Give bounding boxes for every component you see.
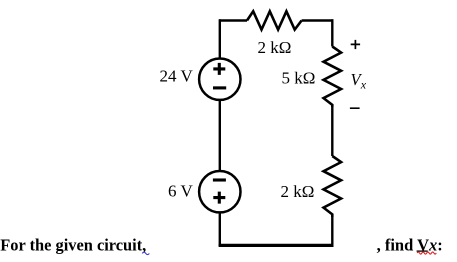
wire left vertical top segment — [219, 19, 221, 59]
plus sign inside 24 V source — [213, 63, 225, 75]
svg-text:2 kΩ: 2 kΩ — [258, 38, 292, 57]
wire top-right horizontal segment — [302, 19, 334, 21]
resistor 5 kOhm — [324, 47, 342, 108]
svg-text:2 kΩ: 2 kΩ — [281, 182, 315, 201]
plus polarity mark of Vx — [351, 40, 360, 49]
wire top-left horizontal segment — [219, 19, 247, 21]
label 6 V — [168, 181, 193, 200]
underline under V of Vx — [417, 250, 428, 252]
svg-text:x: x — [360, 78, 367, 92]
wire right vertical top segment — [331, 19, 333, 46]
caption left: For the given circuit, — [0, 235, 146, 254]
minus polarity mark of Vx — [350, 107, 360, 109]
svg-text:24 V: 24 V — [160, 66, 194, 85]
label 2 kOhm (bottom) — [281, 182, 315, 201]
red spell-check squiggle under Vx — [417, 252, 436, 254]
label Vx — [351, 70, 367, 92]
minus sign inside 6 V source — [213, 178, 226, 181]
wire left vertical bottom segment — [219, 213, 221, 247]
svg-text:6 V: 6 V — [168, 181, 193, 200]
caption right: , find Vx: — [377, 235, 443, 254]
plus sign inside 6 V source — [213, 192, 225, 204]
label 5 kOhm — [282, 69, 316, 88]
resistor 2 kOhm (top) — [247, 11, 302, 29]
minus sign inside 24 V source — [213, 86, 226, 89]
svg-text:5 kΩ: 5 kΩ — [282, 69, 316, 88]
wire bottom horizontal segment — [219, 244, 334, 247]
wire left vertical middle segment — [219, 100, 221, 172]
blue spell-check squiggle under comma — [142, 252, 149, 254]
label 2 kOhm (top) — [258, 38, 292, 57]
svg-text:For the given circuit,: For the given circuit, — [0, 235, 146, 254]
wire right vertical bottom segment — [331, 217, 333, 247]
voltage source 24 V (circle) — [199, 58, 240, 99]
voltage source 6 V (circle) — [199, 171, 240, 212]
wire right vertical middle segment — [331, 107, 333, 156]
resistor 2 kOhm (bottom right) — [324, 156, 342, 217]
label 24 V — [160, 66, 194, 85]
